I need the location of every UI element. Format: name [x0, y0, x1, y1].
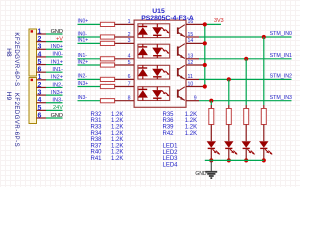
svg-text:IN0-: IN0- [52, 52, 63, 58]
svg-text:R31: R31 [91, 118, 103, 124]
svg-text:IN1-: IN1- [78, 53, 88, 59]
svg-text:1.2K: 1.2K [111, 131, 123, 137]
svg-text:1: 1 [38, 74, 42, 81]
svg-text:+V: +V [56, 36, 63, 42]
svg-text:4: 4 [128, 54, 131, 60]
svg-text:IN0+: IN0+ [78, 19, 89, 25]
svg-text:3: 3 [38, 89, 42, 96]
svg-text:1.2K: 1.2K [111, 112, 123, 118]
svg-text:IN2+: IN2+ [51, 75, 63, 81]
svg-text:6: 6 [38, 112, 42, 119]
svg-text:LED2: LED2 [163, 150, 179, 156]
svg-text:R42: R42 [163, 131, 175, 137]
svg-text:IN1-: IN1- [52, 67, 63, 73]
svg-text:STM_IN1: STM_IN1 [270, 53, 292, 59]
svg-text:GND: GND [195, 171, 207, 177]
svg-text:R38: R38 [91, 137, 103, 143]
svg-text:IN3-: IN3- [52, 98, 63, 104]
svg-text:R37: R37 [91, 143, 103, 149]
svg-text:IN0+: IN0+ [51, 44, 63, 50]
svg-text:1.2K: 1.2K [111, 125, 123, 131]
svg-text:2: 2 [38, 82, 42, 89]
svg-text:IN1+: IN1+ [51, 59, 63, 65]
svg-text:STM_IN0: STM_IN0 [270, 31, 292, 37]
svg-text:8: 8 [128, 96, 131, 102]
svg-text:3V3: 3V3 [214, 18, 224, 24]
svg-text:12: 12 [188, 60, 194, 66]
svg-text:STM_IN3: STM_IN3 [270, 95, 292, 101]
svg-text:24V: 24V [53, 105, 63, 111]
svg-text:IN2+: IN2+ [78, 59, 89, 65]
svg-text:4: 4 [38, 51, 42, 58]
svg-text:R32: R32 [91, 112, 103, 118]
svg-text:1: 1 [38, 28, 42, 35]
svg-text:KF2EDGVR-6P-S: KF2EDGVR-6P-S [13, 93, 19, 147]
svg-text:IN2-: IN2- [78, 74, 88, 80]
svg-text:IN3-: IN3- [78, 95, 88, 101]
svg-text:IN3+: IN3+ [51, 90, 63, 96]
svg-text:STM_IN2: STM_IN2 [270, 74, 292, 80]
svg-text:5: 5 [38, 105, 42, 112]
svg-text:1.2K: 1.2K [111, 156, 123, 162]
svg-text:KF2EDGVR-6P-S: KF2EDGVR-6P-S [13, 32, 19, 86]
svg-text:2: 2 [38, 36, 42, 43]
svg-text:IN1+: IN1+ [78, 38, 89, 44]
svg-text:7: 7 [128, 81, 131, 87]
svg-text:16: 16 [188, 19, 194, 25]
svg-text:1.2K: 1.2K [185, 131, 197, 137]
svg-text:6: 6 [128, 74, 131, 80]
svg-text:1.2K: 1.2K [185, 118, 197, 124]
svg-text:1.2K: 1.2K [111, 143, 123, 149]
svg-text:1.2K: 1.2K [111, 137, 123, 143]
svg-text:3: 3 [38, 44, 42, 51]
svg-text:GND: GND [51, 29, 63, 35]
svg-text:1: 1 [128, 19, 131, 25]
svg-text:5: 5 [38, 59, 42, 66]
svg-text:1.2K: 1.2K [111, 118, 123, 124]
svg-text:2: 2 [128, 32, 131, 38]
svg-text:PS2805C-4-F3-A: PS2805C-4-F3-A [141, 15, 194, 22]
svg-text:R36: R36 [163, 118, 175, 124]
svg-text:H8: H8 [5, 48, 12, 57]
svg-text:R40: R40 [91, 150, 103, 156]
svg-text:R33: R33 [91, 125, 103, 131]
svg-text:R34: R34 [91, 131, 103, 137]
svg-text:6: 6 [38, 67, 42, 74]
svg-text:1.2K: 1.2K [185, 125, 197, 131]
svg-text:IN0-: IN0- [78, 31, 88, 37]
svg-text:R35: R35 [163, 112, 175, 118]
svg-text:R39: R39 [163, 125, 175, 131]
svg-text:LED3: LED3 [163, 156, 179, 162]
svg-text:1.2K: 1.2K [185, 112, 197, 118]
svg-text:4: 4 [38, 97, 42, 104]
svg-text:H9: H9 [5, 92, 12, 101]
svg-text:3: 3 [128, 38, 131, 44]
svg-text:GND: GND [51, 113, 63, 119]
svg-text:10: 10 [188, 81, 194, 87]
svg-text:LED4: LED4 [163, 163, 179, 169]
svg-text:14: 14 [188, 38, 194, 44]
svg-text:R41: R41 [91, 156, 103, 162]
svg-text:5: 5 [128, 60, 131, 66]
svg-text:1.2K: 1.2K [111, 150, 123, 156]
svg-text:IN3+: IN3+ [78, 81, 89, 87]
svg-text:LED1: LED1 [163, 144, 179, 150]
svg-text:IN2-: IN2- [52, 82, 63, 88]
